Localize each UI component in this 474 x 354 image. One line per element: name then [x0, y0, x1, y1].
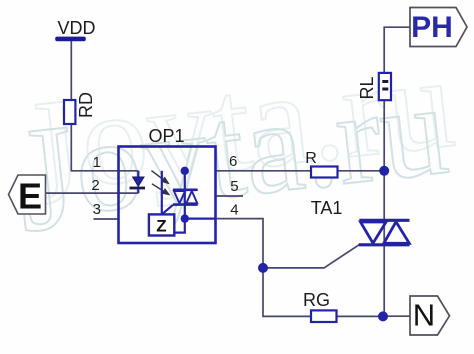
wire RL to node and down through TA1 to bottom node [383, 100, 385, 316]
svg-text:1: 1 [93, 154, 101, 171]
wire gate node down to RG [263, 268, 311, 317]
svg-text:R: R [305, 150, 317, 167]
watermark [5, 25, 465, 264]
internal vertical through photo-triac [184, 171, 186, 219]
svg-text:RL: RL [357, 76, 377, 99]
junction node R/RL/TA1 [379, 166, 389, 176]
svg-text:2: 2 [91, 177, 99, 194]
wire PH to RL [384, 27, 410, 73]
svg-text:4: 4 [230, 202, 238, 219]
svg-text:PH: PH [411, 11, 453, 44]
internal wire bottom dot to pin 4 [185, 218, 216, 220]
resistor RD [64, 92, 96, 124]
resistor RL [357, 73, 391, 100]
svg-text:TA1: TA1 [311, 198, 343, 218]
internal junction dot bottom [181, 214, 189, 222]
wire RD to OP1 pin 1 [71, 124, 138, 171]
zero-cross circuit Z [149, 214, 174, 235]
wire VDD to RD [70, 41, 72, 100]
optocoupler OP1 box [119, 126, 216, 243]
resistor RG [303, 290, 337, 322]
internal gate diagonal to Z [163, 205, 173, 214]
svg-text:3: 3 [93, 201, 101, 218]
triac TA1 [359, 220, 410, 245]
wire RG to bottom node [337, 315, 384, 317]
photo-triac of OP1 [173, 190, 198, 205]
svg-text:VDD: VDD [57, 18, 95, 38]
wire pin 6 to R [216, 170, 312, 172]
connector PH [410, 8, 467, 47]
wire pin 5 stub [216, 195, 244, 197]
connector E [9, 175, 46, 217]
svg-text:Z: Z [156, 217, 166, 236]
connector N [410, 296, 450, 335]
wire pin 4 down to gate node [216, 219, 264, 268]
wire E to OP1 pin 2 [46, 192, 139, 194]
internal rail pin6 to Z (vertical) [161, 171, 163, 215]
junction node bottom [378, 311, 388, 321]
internal junction dot top [181, 167, 189, 175]
svg-text:6: 6 [229, 153, 237, 170]
power VDD [55, 18, 95, 41]
wire bottom node to N [383, 315, 410, 317]
wire R to node [338, 170, 385, 172]
junction node gate [258, 263, 268, 273]
wire gate node to TA1 gate [263, 244, 360, 268]
svg-text:RG: RG [303, 290, 330, 310]
svg-text:E: E [18, 176, 42, 217]
light arrows [151, 171, 168, 195]
svg-text:OP1: OP1 [148, 126, 184, 146]
internal wire bottom dot to Z box [174, 219, 185, 233]
svg-text:5: 5 [230, 178, 238, 195]
svg-text:RD: RD [76, 92, 96, 118]
resistor R [305, 150, 337, 178]
svg-text:N: N [413, 298, 435, 333]
LED inside OP1 [130, 171, 146, 193]
wire pin 3 stub [94, 218, 119, 220]
